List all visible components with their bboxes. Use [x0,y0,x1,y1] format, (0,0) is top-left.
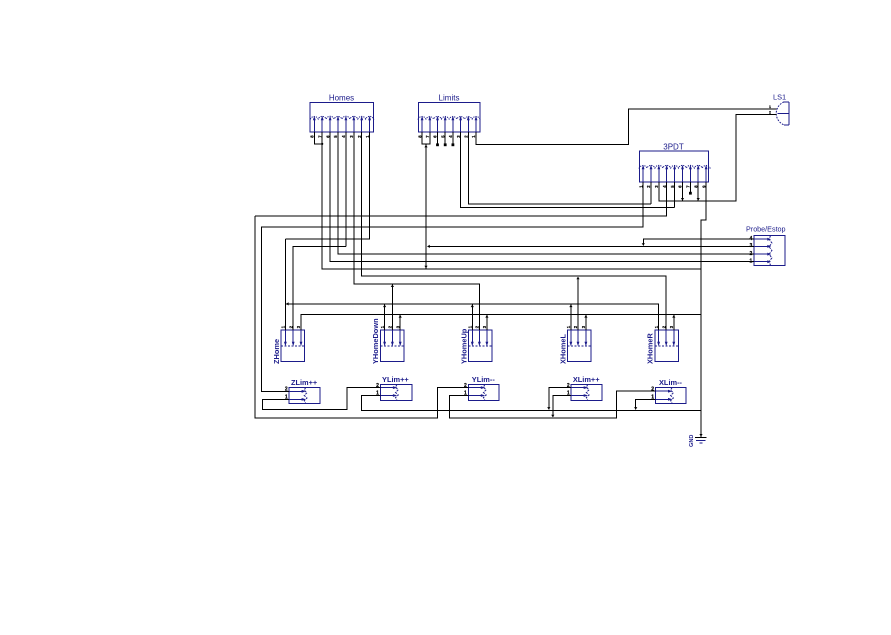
connector Limits box [418,102,479,132]
wire XHomeL pin3 up to bus B [585,315,587,330]
junction arrow Limits tie end on GND/Homes2 line [424,266,427,269]
svg-text:Limits: Limits [439,94,460,103]
svg-text:2: 2 [288,325,293,328]
connector 3PDT box [640,151,709,182]
wire 3PDT pin1 down, left to far-left drop, down to ZLim++ pin2 [261,182,643,391]
wire Probe/Estop pin4 left, down onto pin3 line [643,239,754,245]
wire ZHome pin1 up to Homes pin8 line [284,239,286,330]
svg-text:3: 3 [395,325,400,328]
svg-text:7: 7 [317,135,322,138]
connector Limits pins (up arrows) [418,116,480,133]
svg-text:Homes: Homes [329,94,354,103]
svg-text:3: 3 [654,185,659,188]
switch YHomeDown box [380,330,403,361]
svg-text:1: 1 [654,325,659,328]
svg-text:1: 1 [566,325,571,328]
svg-text:2: 2 [464,135,469,138]
junction arrow XLim++ pin1 end [551,415,554,418]
junction arrow XHomeL pin3 end [584,315,587,318]
svg-text:4: 4 [662,185,667,188]
wire far-left drop down to YLim-- pin2 [255,216,468,418]
switch YHomeDown pins (down arrows) and dashed line [380,330,403,346]
wire Limits pin4 stub [444,132,446,143]
connector 3PDT pin number labels [638,185,706,188]
junction arrow YHomeDown pin3 end [399,315,402,318]
wire Limits pin8 down, right, up, right to LS1 pin1 [476,109,776,144]
wire bus B (home pins 3) from ZHome pin3 to GND column [301,314,701,330]
svg-text:XLim--: XLim-- [659,378,683,387]
no-connect square 3PDT pin7 [689,192,692,195]
connector Homes pins (up arrows) [310,116,373,133]
connector XLim++ pin number labels [567,383,570,397]
svg-text:5: 5 [670,185,675,188]
junction arrow Limits tie start [424,145,427,148]
svg-text:3: 3 [349,135,354,138]
svg-text:6: 6 [678,185,683,188]
no-connect square Limits pin4 [444,143,447,146]
wire YHomeDown pin3 up to bus B [399,315,401,330]
connector Probe/Estop box [754,235,785,265]
switch YHomeUp pins (down arrows) and dashed line [469,330,492,346]
wire YHomeUp pin1 up to bus A [471,305,473,330]
wire Limits pin6 down, right to 3PDT pin5 (tap 3PDT pin1 column) [461,132,675,207]
svg-text:6: 6 [325,135,330,138]
wire ZHome pin2 up, right to Homes pin5 [293,246,346,330]
switch XHomeR pins (down arrows) and dashed line [655,330,678,346]
wire Probe/Estop pin3 left to Limits tie [427,245,754,247]
svg-text:1: 1 [380,325,385,328]
svg-text:XLim++: XLim++ [573,375,600,384]
connector YLim-- pin number labels [464,383,467,397]
wire Limits tie down to Homes pin2 net [425,144,427,269]
connector XLim-- pin number labels [651,386,654,400]
switch XHomeL pin number labels [566,325,586,328]
svg-text:ZLim++: ZLim++ [291,378,318,387]
svg-text:1: 1 [471,135,476,138]
svg-text:2: 2 [475,325,480,328]
junction arrow 3PDT pin8 end [697,198,700,201]
connector ZLim++ pin number labels [285,387,288,401]
svg-text:3: 3 [482,325,487,328]
junction arrow XLim-- pin1 end [634,407,637,410]
connector YLim++ box [380,384,412,400]
wire XLim-- pin1 left and down onto YLim++ pin1 line [636,399,656,409]
connector Probe/Estop pins (right arrows) and zigzag [754,236,772,266]
wire YHomeDown pin1 up to bus A [384,305,386,330]
svg-text:ZHome: ZHome [272,339,281,364]
switch ZHome box [281,330,304,361]
svg-text:2: 2 [388,325,393,328]
wire YLim-- pin1 left, down, right to XLim-- pin2 [449,391,655,418]
wire Homes pin7 down, right to XHomeR pin2 (tap XHomeL pin2) [362,132,667,330]
wire ZLim++ pin1 left, down, right to YLim++ pin2 [263,388,381,410]
svg-text:5: 5 [333,135,338,138]
no-connect square Limits pin3 [436,143,439,146]
speaker LS1 symbol [772,102,789,125]
wire Homes pin5 down to ZHome pin2 line [345,132,347,246]
wire 3PDT pin7 stub [689,182,691,192]
connector ZLim++ box [289,387,320,403]
wire 3PDT pin6 down onto LS1 line [682,182,684,200]
wire Limits pin7 down, right to 3PDT pin2 [468,132,651,204]
wire YHomeDown pin2 up to Homes pin6 line [391,285,393,331]
connector Probe/Estop pin number labels [750,236,753,265]
svg-text:XHomeL: XHomeL [558,334,567,364]
svg-text:GND: GND [689,435,695,447]
switch ZHome pin number labels [281,325,302,328]
svg-text:2: 2 [646,185,651,188]
wire YHomeUp pin3 up to bus B [486,315,488,330]
connector YLim-- pins (right arrows) and zigzag [468,385,486,401]
wire 3PDT pin3 down, right to LS1 pin2 (taps pins 6,8) [659,115,777,202]
wire Homes pin6 down, right to YHomeUp pin2 (tap YHomeDown pin2) [354,132,480,330]
svg-text:3: 3 [669,325,674,328]
switch XHomeR box [655,330,678,361]
ground symbol [695,434,706,443]
svg-text:8: 8 [417,135,422,138]
connector YLim-- box [468,384,499,400]
junction arrow YHomeUp pin1 end [471,305,474,308]
svg-text:YHomeUp: YHomeUp [459,328,468,364]
svg-text:4: 4 [448,135,453,138]
wire Homes pin4 down, right to Probe/Estop pin2 [338,132,754,254]
switch ZHome pins (down arrows) and dashed line [281,330,304,346]
switch YHomeUp box [469,330,492,361]
svg-text:8: 8 [310,135,315,138]
svg-text:2: 2 [661,325,666,328]
junction arrow YHomeDown pin2 end [391,284,394,287]
junction arrow Probe pin3 end on Limits tie [427,245,430,248]
svg-text:YHomeDown: YHomeDown [371,318,380,364]
connector Homes pin number labels [310,135,370,138]
switch XHomeL pins (down arrows) and dashed line [568,330,591,346]
wire 3PDT pin9 down with jog to GND [701,182,706,437]
connector XLim++ box [571,384,602,400]
svg-text:2: 2 [651,386,654,392]
svg-text:XHomeR: XHomeR [646,333,655,364]
svg-text:YLim--: YLim-- [472,375,496,384]
connector XLim-- box [656,387,687,403]
svg-text:2: 2 [573,325,578,328]
switch YHomeDown pin number labels [380,325,401,328]
speaker LS1 pin number labels [769,105,771,115]
wire Limits pin3 stub [437,132,439,143]
switch XHomeR pin number labels [654,325,674,328]
junction arrow XHomeR pin3 end [672,315,675,318]
svg-text:3: 3 [456,135,461,138]
junction arrow XHomeL pin2 end [576,277,579,280]
svg-text:9: 9 [701,185,706,188]
svg-text:4: 4 [341,135,346,138]
svg-text:1: 1 [468,325,473,328]
junction dot Homes pin1/pin2 [321,143,323,145]
svg-text:1: 1 [365,135,370,138]
svg-text:1: 1 [638,185,643,188]
svg-text:Probe/Estop: Probe/Estop [746,225,786,234]
wire 3PDT pin4 down, left to 3PDT pin1 column [255,182,667,216]
junction arrow XLim++ pin2 end [547,407,550,410]
wire Homes pin1 stub to pin2 junction [314,132,322,144]
wire 3PDT pin8 down onto LS1 line [697,182,699,200]
switch YHomeUp pin number labels [468,325,488,328]
junction arrow XHomeL pin1 end [569,305,572,308]
svg-text:7: 7 [686,185,691,188]
svg-text:3PDT: 3PDT [663,143,684,152]
junction arrow 3PDT pin6 end [681,198,684,201]
wire 3PDT pin5 down to Limits pin6 line [674,182,676,207]
wire Homes pin3 down, right to Probe/Estop pin1 [330,132,754,261]
wire XHomeL pin2 up to Homes pin7 line [577,277,579,330]
wire XLim++ pin2 left and down onto YLim++ pin1 line [549,388,571,410]
svg-text:YLim++: YLim++ [382,375,409,384]
wire Limits pin1/pin2 tie [422,132,430,144]
connector XLim-- pins (right arrows) and zigzag [656,388,674,404]
svg-text:5: 5 [440,135,445,138]
svg-text:6: 6 [433,135,438,138]
connector ZLim++ pins (right arrows) and zigzag [289,388,307,404]
svg-text:8: 8 [693,185,698,188]
wire Homes pin2 down, right to GND column (net to Limits tie and GND) [322,132,701,269]
connector YLim++ pin number labels [376,383,379,397]
wire Limits pin5 stub [452,132,454,143]
svg-text:3: 3 [296,325,301,328]
connector XLim++ pins (right arrows) and zigzag [571,385,589,401]
wire XHomeL pin1 up to bus A [570,305,572,330]
connector Homes box [310,102,373,132]
wire YLim++ pin1 left, down, right to GND column (taps XLim++ pin2, XLim-- pin1) [361,396,701,411]
connector YLim++ pins (right arrows) and zigzag [380,385,398,401]
switch XHomeL box [568,330,591,361]
wire XLim++ pin1 left and down onto YLim-- pin1 line [553,396,571,417]
connector 3PDT pins (up arrows) [639,165,710,182]
svg-text:LS1: LS1 [773,92,786,101]
no-connect square Limits pin5 [452,143,455,146]
junction arrow YHomeUp pin3 end [485,315,488,318]
wire Homes pin8 down, left to ZHome pin1 [285,132,369,239]
junction arrow Probe pin4 end [642,243,645,246]
connector Limits pin number labels [417,135,476,138]
junction arrow bus A start on ZHome pin1 [286,302,289,305]
svg-text:7: 7 [425,135,430,138]
svg-text:2: 2 [769,111,771,115]
junction arrow YHomeDown pin1 end [383,305,386,308]
wire bus A (home pins 1) from ZHome pin1 to XHomeR pin1 [286,304,658,330]
svg-text:3: 3 [581,325,586,328]
svg-text:1: 1 [281,325,286,328]
svg-text:2: 2 [357,135,362,138]
wire 3PDT pin2 down to Limits pin7 line [650,182,652,204]
wire XHomeR pin3 up to bus B [673,315,675,330]
